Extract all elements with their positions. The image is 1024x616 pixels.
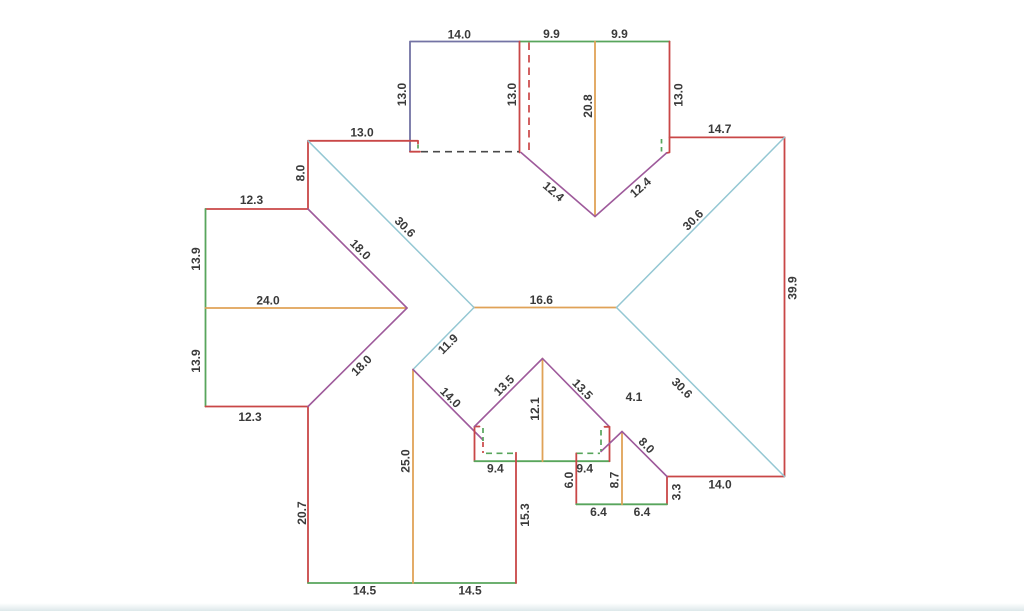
svg-text:9.4: 9.4 — [487, 462, 504, 476]
svg-text:12.1: 12.1 — [528, 397, 542, 421]
svg-text:25.0: 25.0 — [399, 449, 413, 473]
svg-text:15.3: 15.3 — [518, 503, 532, 527]
svg-text:4.1: 4.1 — [626, 390, 643, 404]
svg-text:13.0: 13.0 — [505, 82, 519, 106]
svg-text:13.9: 13.9 — [189, 247, 203, 271]
svg-text:16.6: 16.6 — [530, 293, 554, 307]
svg-text:14.5: 14.5 — [353, 584, 377, 598]
svg-text:39.9: 39.9 — [786, 276, 800, 300]
svg-text:6.0: 6.0 — [562, 471, 576, 488]
svg-text:13.0: 13.0 — [395, 82, 409, 106]
svg-text:14.7: 14.7 — [708, 122, 732, 136]
svg-text:12.3: 12.3 — [238, 410, 262, 424]
svg-text:12.3: 12.3 — [240, 193, 264, 207]
svg-text:24.0: 24.0 — [256, 294, 280, 308]
svg-text:8.7: 8.7 — [608, 471, 622, 488]
svg-text:9.9: 9.9 — [611, 27, 628, 41]
svg-text:13.9: 13.9 — [189, 349, 203, 373]
svg-text:13.0: 13.0 — [350, 126, 374, 140]
svg-text:14.0: 14.0 — [708, 478, 732, 492]
svg-text:13.0: 13.0 — [672, 83, 686, 107]
svg-text:9.4: 9.4 — [576, 462, 593, 476]
svg-text:20.8: 20.8 — [581, 94, 595, 118]
svg-text:14.0: 14.0 — [448, 27, 472, 41]
svg-text:9.9: 9.9 — [543, 27, 560, 41]
svg-text:6.4: 6.4 — [634, 505, 651, 519]
svg-text:14.5: 14.5 — [458, 584, 482, 598]
svg-text:8.0: 8.0 — [294, 164, 308, 181]
svg-text:3.3: 3.3 — [670, 483, 684, 500]
svg-text:6.4: 6.4 — [590, 505, 607, 519]
svg-text:20.7: 20.7 — [295, 501, 309, 525]
